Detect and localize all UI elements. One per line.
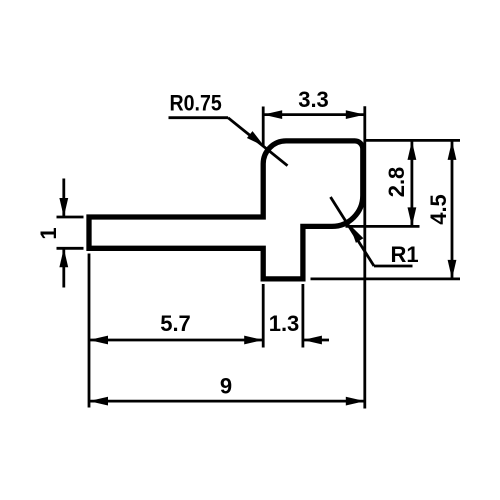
leader R1 arrow — [350, 225, 364, 243]
svg-text:5.7: 5.7 — [160, 311, 191, 336]
extension line 5.7 right — [262, 284, 265, 348]
dimension 9 right arrow — [346, 397, 365, 406]
extension line left long — [88, 254, 91, 408]
leader R0.75 diagonal — [228, 118, 288, 166]
dimension 4.5 line — [451, 141, 454, 279]
leader R0.75 tail — [169, 116, 229, 119]
leader R1 diagonal — [331, 197, 375, 266]
svg-text:3.3: 3.3 — [298, 87, 329, 112]
dimension 2.8 bottom arrow — [408, 207, 417, 226]
dimension 1 lower arrow — [59, 248, 68, 267]
extension tick 1 bottom — [57, 247, 84, 250]
extension line right long — [363, 106, 366, 408]
dimension 2.8 line — [410, 141, 413, 227]
dimension 1.3 right arrow — [303, 336, 322, 345]
svg-text:1.3: 1.3 — [269, 311, 300, 336]
dimension 5.7 line — [89, 339, 263, 342]
leader R1 tail — [374, 265, 413, 268]
extension line 1.3 right — [301, 284, 304, 348]
dimension 9 line — [89, 400, 365, 403]
dimension 2.8 top arrow — [408, 141, 417, 160]
svg-text:2.8: 2.8 — [384, 167, 409, 198]
svg-text:R0.75: R0.75 — [170, 91, 222, 115]
dimension 3.3 line — [263, 113, 365, 116]
extension line 3.3 left — [262, 107, 265, 146]
dimension 4.5 bottom arrow — [448, 260, 457, 279]
svg-text:9: 9 — [220, 374, 232, 399]
svg-text:4.5: 4.5 — [426, 194, 451, 225]
dimension 3.3 right arrow — [346, 110, 365, 119]
dimension 1.3 tail — [303, 339, 329, 342]
svg-text:1: 1 — [36, 227, 61, 239]
extension tick 1 top — [57, 216, 84, 219]
dimension 5.7 right arrow — [244, 336, 263, 345]
svg-text:R1: R1 — [391, 242, 419, 267]
extension line 2.8 bottom — [346, 225, 420, 228]
profile outline — [89, 141, 363, 279]
dimension 1 upper arrow — [59, 198, 68, 217]
dimension 3.3 left arrow — [263, 110, 282, 119]
dimension 1 upper line — [62, 179, 65, 218]
leader R0.75 arrow — [247, 131, 265, 146]
dimension 5.7 left arrow — [89, 336, 108, 345]
dimension 1 lower line — [62, 248, 65, 287]
dimension 9 left arrow — [89, 397, 108, 406]
dimension 4.5 top arrow — [448, 141, 457, 160]
extension line top right — [365, 139, 461, 142]
extension line 4.5 bottom — [311, 277, 461, 280]
